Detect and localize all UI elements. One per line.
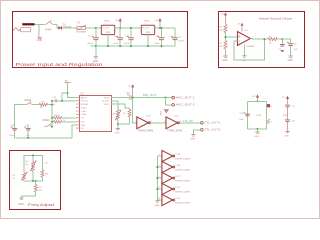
svg-text:WAVE: WAVE — [159, 110, 162, 116]
svg-text:IN OUT: IN OUT — [103, 28, 111, 30]
wire between inverters — [150, 122, 166, 124]
ground TTL return — [190, 135, 195, 141]
svg-text:OP-AMP: OP-AMP — [246, 45, 255, 48]
svg-text:IC3P: IC3P — [283, 115, 288, 117]
svg-text:IC2D: IC2D — [174, 115, 179, 117]
svg-text:GND: GND — [18, 203, 24, 206]
resistor R1 right — [41, 170, 49, 181]
svg-text:74HC04N: 74HC04N — [175, 158, 191, 160]
wire divider node — [226, 33, 238, 41]
svg-text:1: 1 — [159, 154, 160, 156]
spare inverter IC2B — [156, 161, 191, 172]
IC1 function generator — [80, 92, 112, 131]
switch S2 WAVE — [24, 99, 32, 105]
svg-text:TTL_OUT-1: TTL_OUT-1 — [205, 122, 222, 125]
section box: Power Input and Regulation — [13, 12, 188, 68]
wire regulator IC6 ground — [147, 35, 149, 47]
ground power rail — [93, 57, 99, 63]
vertical select bus — [51, 101, 53, 127]
inverter IC2E — [135, 115, 154, 132]
junction — [263, 38, 265, 40]
svg-text:GND: GND — [288, 59, 294, 62]
wire down to inverter — [133, 98, 137, 123]
voltage regulator IC5 78L05 — [101, 21, 114, 35]
svg-text:Virtual Ground Circuit: Virtual Ground Circuit — [259, 16, 292, 20]
wire jack sleeve to ground — [38, 24, 40, 34]
capacitor C4 10uF — [155, 27, 165, 46]
trimmer R12 right of IC — [111, 101, 121, 128]
svg-text:+5V: +5V — [115, 20, 119, 22]
svg-text:10uF: 10uF — [239, 119, 244, 121]
svg-text:680R: 680R — [54, 115, 59, 117]
wire left drop to caps — [15, 105, 20, 129]
ground IC4P — [254, 132, 259, 138]
pad TTL_OUT-2 — [201, 129, 222, 132]
wire op-amp output — [250, 38, 268, 41]
junction — [281, 38, 283, 40]
inverter IC2D — [164, 115, 183, 132]
svg-text:11: 11 — [158, 187, 160, 189]
svg-text:74HC04N: 74HC04N — [175, 202, 191, 204]
svg-text:2_ADJ: 2_ADJ — [81, 110, 87, 113]
svg-text:IC2F: IC2F — [176, 187, 181, 189]
wire pad2 to ground — [193, 130, 200, 135]
capacitor C9 1uF polarized — [287, 39, 298, 55]
supply arrow above sine wire — [127, 84, 134, 97]
svg-text:IC2E: IC2E — [146, 115, 151, 117]
capacitor C13 220uF — [9, 125, 17, 138]
svg-text:AVC_OUT-2: AVC_OUT-2 — [176, 104, 196, 107]
svg-text:GND: GND — [284, 136, 289, 138]
svg-text:74HC04N: 74HC04N — [175, 180, 191, 182]
svg-text:0.1uF: 0.1uF — [124, 43, 130, 45]
junction — [225, 36, 227, 38]
junction node — [67, 92, 69, 94]
bottom cap rail — [15, 137, 72, 139]
svg-text:AVC_OUT-1: AVC_OUT-1 — [176, 97, 196, 100]
svg-text:470uF: 470uF — [87, 43, 94, 45]
wire IC5 out — [115, 27, 142, 29]
wire diode to fuse — [62, 27, 77, 29]
section box: Virtual Ground Circuit — [219, 12, 305, 68]
inverter stack rail — [156, 156, 158, 200]
resistor R10 — [54, 115, 62, 119]
svg-text:C18: C18 — [291, 121, 294, 123]
connector symbol below pads — [159, 110, 168, 116]
IC4P VCC pin square — [267, 104, 272, 108]
junction — [61, 100, 63, 102]
svg-text:GND: GND — [254, 136, 259, 138]
svg-text:78L05: 78L05 — [103, 21, 110, 23]
supply arrow +5V virtual ground — [220, 12, 227, 24]
svg-text:M_OUT: M_OUT — [103, 101, 110, 103]
capacitor C16 10uF — [239, 112, 250, 121]
svg-text:TTL_OUT-2: TTL_OUT-2 — [205, 129, 222, 132]
wire rail to ground — [95, 46, 97, 56]
resistor R13 — [111, 104, 131, 125]
capacitor C5 0.1uF — [171, 28, 185, 46]
ground rail wire — [91, 45, 175, 47]
spare inverter IC2C — [156, 172, 191, 183]
svg-text:74HC04N: 74HC04N — [138, 131, 154, 133]
svg-text:Power Input and Regulation: Power Input and Regulation — [16, 62, 104, 67]
svg-text:3: 3 — [159, 165, 160, 167]
svg-text:GND: GND — [146, 32, 151, 34]
svg-text:WICKMANN: WICKMANN — [76, 30, 86, 33]
junction — [95, 27, 97, 29]
junction — [159, 27, 161, 29]
rail junctions — [95, 45, 163, 47]
svg-text:C17: C17 — [291, 106, 294, 108]
op-amp ground stub — [241, 44, 246, 61]
capacitor C1 470uF — [87, 28, 99, 46]
wire switch to diode — [53, 24, 58, 28]
pad TTL_OUT-1 — [201, 122, 222, 125]
diode D1 1N4004 — [58, 25, 72, 30]
ground freq adjust — [18, 198, 24, 206]
svg-text:IC2C: IC2C — [176, 176, 181, 178]
resistor R7 2K2 — [219, 41, 227, 49]
capacitor C15 series on sine out — [126, 93, 131, 100]
svg-text:SIN_OUT: SIN_OUT — [143, 93, 158, 97]
svg-text:SYNC: SYNC — [104, 104, 110, 106]
svg-text:POWER: POWER — [45, 29, 51, 32]
junction — [119, 27, 121, 29]
supply arrow +5V node 1 — [115, 18, 122, 28]
wire R7 to ground — [225, 49, 227, 56]
feedback wire — [234, 39, 264, 60]
svg-text:GND: GND — [190, 138, 195, 140]
wire IC3P mid — [287, 107, 289, 120]
supply flag 5V to IC1 — [65, 80, 71, 83]
supply arrow +5V node 2 — [154, 18, 161, 28]
junction — [165, 97, 167, 99]
trimmer R2 — [25, 154, 36, 180]
wire regulator IC5 ground — [107, 35, 109, 47]
svg-text:IC2E: IC2E — [176, 198, 181, 200]
svg-text:10uF: 10uF — [113, 43, 119, 45]
svg-text:1M: 1M — [41, 101, 44, 103]
resistor R9 1M — [39, 101, 47, 109]
wire switch to R9 — [33, 104, 40, 106]
wire fuse to regulator IC5 — [86, 27, 102, 29]
svg-text:GND: GND — [115, 132, 120, 134]
svg-text:IC1: IC1 — [80, 92, 85, 95]
wire branch left — [62, 93, 68, 101]
wire switch left — [20, 104, 25, 106]
svg-text:5: 5 — [158, 176, 159, 178]
svg-text:8: 8 — [271, 106, 272, 108]
wire inverter to pad — [180, 122, 201, 124]
voltage regulator IC6 78L05 — [141, 21, 154, 35]
ground trimmer — [115, 129, 120, 135]
svg-text:TC1: TC1 — [81, 118, 85, 120]
capacitor C2 10uF — [113, 28, 123, 46]
ground C9 — [288, 56, 294, 62]
svg-text:1_ADJ: 1_ADJ — [81, 106, 87, 109]
svg-text:74HC04N: 74HC04N — [175, 169, 191, 171]
svg-text:74HC04N: 74HC04N — [167, 131, 183, 133]
ground divider — [222, 56, 228, 62]
svg-text:GND: GND — [37, 39, 43, 42]
capacitor C8 0.1uF to ground — [279, 39, 285, 51]
svg-text:BYPASS: BYPASS — [81, 103, 89, 106]
wire top rail freq — [24, 155, 42, 172]
resistor R8 1K — [268, 36, 277, 44]
svg-text:TC2: TC2 — [81, 122, 85, 124]
op-amp IC3 — [238, 30, 256, 48]
wire jack to switch — [35, 23, 45, 25]
switch S1 POWER — [44, 20, 53, 31]
svg-text:9: 9 — [164, 121, 165, 123]
resistor R6 2K2 — [219, 24, 227, 32]
svg-text:5: 5 — [135, 121, 136, 123]
resistor R11 — [54, 120, 66, 123]
IC1 left pin stubs — [76, 98, 80, 129]
ground IC3P — [284, 132, 289, 138]
switch S3 FREQ — [43, 119, 53, 127]
svg-text:3_ADJ: 3_ADJ — [81, 113, 87, 116]
wire sine out row — [111, 97, 172, 99]
IC4P power loop wires — [248, 101, 267, 129]
wire R10 to IC — [52, 117, 76, 119]
svg-text:0.1uF: 0.1uF — [178, 40, 184, 42]
svg-text:Freq Adjust: Freq Adjust — [28, 203, 54, 207]
svg-text:IC4P: IC4P — [256, 115, 261, 117]
IC4P GND pin mark — [267, 119, 272, 124]
ground under jack — [37, 37, 43, 42]
power jack X1 — [13, 23, 35, 32]
svg-text:+5V: +5V — [154, 20, 158, 22]
wire rail up to IC pin — [72, 125, 76, 138]
junction — [132, 97, 134, 99]
svg-text:SQ/TR: SQ/TR — [104, 98, 110, 100]
wire IC4P ground — [257, 129, 259, 132]
wire IC6 out — [155, 27, 175, 29]
svg-text:GND: GND — [222, 59, 228, 62]
spare inverter IC2F — [156, 183, 191, 194]
capacitor C3 0.1uF — [124, 27, 134, 46]
svg-text:IN OUT: IN OUT — [143, 28, 151, 30]
svg-text:FSK_IN: FSK_IN — [81, 101, 88, 103]
svg-text:FSKI: FSKI — [81, 125, 86, 127]
wire 5V flag down — [68, 83, 76, 98]
wire R8 to output cap — [277, 38, 290, 40]
supply arrow IC4P — [252, 94, 260, 101]
svg-text:GND: GND — [93, 60, 99, 63]
pot R3 left — [12, 172, 27, 181]
junction — [257, 100, 259, 102]
svg-text:GND: GND — [154, 205, 159, 207]
svg-text:10uF: 10uF — [155, 43, 161, 45]
pad AVC_OUT-1 — [172, 96, 196, 99]
resistor R4 bottom — [22, 181, 43, 198]
svg-text:78L05: 78L05 — [143, 21, 150, 23]
svg-text:IC2A: IC2A — [176, 153, 181, 156]
wire R9 to bus — [48, 104, 52, 106]
ground inverter stack — [154, 201, 159, 207]
svg-text:FREQ: FREQ — [43, 119, 50, 122]
IC1 right pin stubs — [111, 98, 115, 104]
capacitor C18 — [285, 120, 295, 123]
wire mid rail freq — [24, 180, 42, 182]
pad AVC_OUT-2 — [172, 104, 196, 107]
wire row2 to IC — [57, 100, 76, 102]
capacitor C14 1uF — [24, 125, 30, 138]
spare inverter IC2A — [157, 150, 191, 161]
spare inverter IC2G — [157, 194, 191, 205]
svg-text:74HC04N: 74HC04N — [175, 191, 191, 193]
wire IC3P to ground — [287, 122, 289, 132]
svg-text:4: 4 — [271, 122, 272, 124]
svg-text:IC2B: IC2B — [176, 165, 181, 167]
wire R11 to IC — [52, 121, 76, 123]
svg-text:GND: GND — [106, 32, 111, 34]
svg-text:13: 13 — [158, 198, 160, 200]
op-amp V+ stub — [237, 23, 244, 32]
wire branch to pad 2 — [166, 98, 172, 105]
svg-text:AM_IN: AM_IN — [81, 97, 87, 100]
capacitor C17 — [285, 105, 295, 108]
fuse F1 — [76, 23, 86, 34]
supply arrow IC3P — [282, 96, 290, 105]
section box: Freq Adjust — [10, 151, 61, 210]
capacitor C12 series — [51, 97, 56, 107]
